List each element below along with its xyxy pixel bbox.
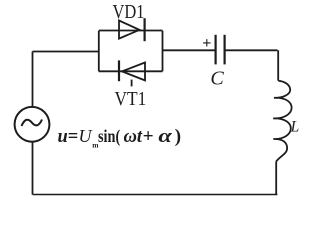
svg-text:u=: u= [58,126,79,147]
svg-text:VD1: VD1 [113,1,145,23]
svg-text:sin(: sin( [98,126,120,147]
svg-text:+: + [202,35,211,52]
svg-text:): ) [175,126,181,147]
svg-text:VT1: VT1 [115,88,147,110]
svg-text:U: U [79,126,93,146]
svg-text:α: α [158,126,172,147]
svg-text:L: L [290,119,300,136]
svg-text:+: + [143,126,154,147]
svg-text:C: C [210,68,224,90]
svg-text:ωt: ωt [124,126,143,147]
